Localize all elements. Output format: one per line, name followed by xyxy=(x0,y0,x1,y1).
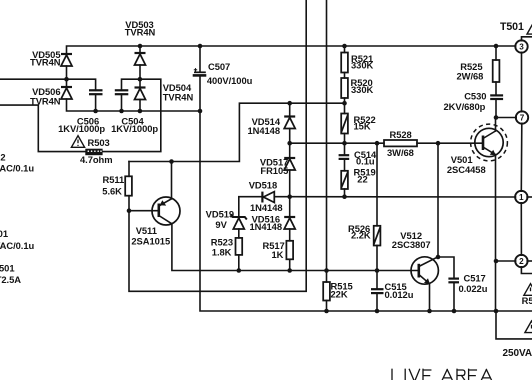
wire R515 stub top xyxy=(326,271,328,283)
junction V501 base xyxy=(436,141,441,146)
junction R515 top xyxy=(324,268,329,273)
junction R526 bottom xyxy=(375,268,380,273)
transistor V511 PNP xyxy=(152,197,180,225)
resistor R515 xyxy=(323,282,330,301)
wire R521 chain xyxy=(344,46,346,53)
svg-text:T2.5A: T2.5A xyxy=(0,274,21,285)
wire C515 stubs xyxy=(376,271,378,290)
wire emitter exit bottom right xyxy=(496,311,532,339)
wire R503 right to VD503/VD504 midpoint xyxy=(103,79,161,151)
wire node7 to node1 xyxy=(520,123,523,191)
svg-text:400V/100u: 400V/100u xyxy=(207,75,253,86)
svg-text:TVR4N: TVR4N xyxy=(163,92,194,103)
wire V512 collector vertical xyxy=(437,143,439,257)
warning triangle R503 xyxy=(71,136,84,148)
svg-text:2KV/680p: 2KV/680p xyxy=(444,101,486,112)
wire base net y=143.2 xyxy=(290,142,384,144)
wire long vertical x=326.5 xyxy=(326,0,328,271)
wire node7 left xyxy=(496,117,516,119)
capacitor C517 xyxy=(448,279,459,283)
svg-text:250VAC/0.1u: 250VAC/0.1u xyxy=(0,163,34,174)
svg-text:TVR4N: TVR4N xyxy=(30,95,61,106)
wire R511 down to bottom loop xyxy=(129,0,306,291)
resistor R526 xyxy=(374,226,381,246)
junction C507 rail xyxy=(198,109,203,114)
svg-text:0.1u: 0.1u xyxy=(356,155,375,166)
wire R517 bottom xyxy=(289,259,291,270)
svg-text:1N4148: 1N4148 xyxy=(250,202,283,213)
svg-text:C530: C530 xyxy=(464,90,486,101)
svg-text:2SC3807: 2SC3807 xyxy=(392,239,431,250)
wire VD516 stubs xyxy=(289,197,291,217)
svg-text:1K: 1K xyxy=(272,249,284,260)
wire C507 column down to ground rail xyxy=(200,76,532,311)
junction VD505/VD506 xyxy=(64,77,69,82)
warning triangle bottom right 2 (cut) xyxy=(525,321,532,333)
wire AC line 2 left via corner to R503 xyxy=(0,105,85,152)
wire node3 to node7 xyxy=(521,52,523,111)
node 1 xyxy=(515,191,527,203)
wire C514 stubs xyxy=(344,143,346,155)
capacitor C514 xyxy=(339,155,350,159)
capacitor C507 polarized xyxy=(193,68,207,75)
wire R519 bottom xyxy=(344,189,346,197)
junction C504 bottom xyxy=(119,109,124,114)
diode VD503 xyxy=(135,53,146,65)
junction R522/C514 xyxy=(342,141,347,146)
wire V512 emitter down xyxy=(429,284,431,311)
wire C504 bottom stub xyxy=(121,94,123,111)
svg-text:C501: C501 xyxy=(0,228,8,239)
wire C506 bottom stub xyxy=(95,94,97,111)
svg-text:1KV/1000p: 1KV/1000p xyxy=(58,123,105,134)
wire node1 to node2 xyxy=(520,203,522,255)
svg-text:R503: R503 xyxy=(88,137,110,148)
svg-text:2: 2 xyxy=(519,257,524,266)
diode VD517 xyxy=(284,158,295,170)
wire node1 net y=196.7 xyxy=(290,196,516,198)
diode VD514 xyxy=(284,117,295,129)
svg-text:C517: C517 xyxy=(464,272,486,283)
junction R517 bottom xyxy=(287,268,292,273)
svg-text:9V: 9V xyxy=(215,219,227,230)
junction R515 ground xyxy=(324,309,329,314)
svg-text:1N4148: 1N4148 xyxy=(249,221,282,232)
svg-text:R528: R528 xyxy=(390,129,412,140)
wire VD518 through xyxy=(274,196,289,198)
svg-text:502: 502 xyxy=(0,151,6,162)
resistor R503 dark body xyxy=(85,149,102,156)
wire node2 bottom L xyxy=(521,267,532,274)
junction VD514/VD517 xyxy=(287,141,292,146)
svg-text:1: 1 xyxy=(519,193,524,202)
wire VD519 to R523 xyxy=(238,229,240,238)
capacitor C515 xyxy=(371,289,384,293)
svg-text:TVR4N: TVR4N xyxy=(30,56,61,67)
wire V501 collector xyxy=(495,118,497,132)
diode VD504 xyxy=(135,88,146,100)
junction R526 top xyxy=(375,141,380,146)
svg-text:2.2K: 2.2K xyxy=(351,230,371,241)
wire C507 column top xyxy=(199,46,201,72)
wire VD505 anode to junction xyxy=(66,66,68,87)
junction C517 ground xyxy=(452,309,457,314)
junction R525 top rail xyxy=(494,44,499,49)
svg-text:0.012u: 0.012u xyxy=(385,289,414,300)
junction VD514 top xyxy=(287,101,292,106)
node 2 xyxy=(515,255,527,267)
svg-text:15K: 15K xyxy=(354,120,371,131)
diode VD518 horizontal pointing left xyxy=(262,192,274,203)
junction C515 ground xyxy=(375,309,380,314)
transistor V501 NPN with dashed ring xyxy=(471,124,508,161)
svg-text:330K: 330K xyxy=(351,60,373,71)
wire C517 branch xyxy=(438,257,454,279)
junction V501 emitter rail xyxy=(494,309,499,314)
svg-text:1KV/1000p: 1KV/1000p xyxy=(111,123,158,134)
diode VD505 xyxy=(61,54,72,66)
junction VD503 top rail xyxy=(138,44,143,49)
svg-text:VD518: VD518 xyxy=(249,179,277,190)
svg-text:R511: R511 xyxy=(103,174,125,185)
wire top rail xyxy=(67,46,516,54)
svg-text:V511: V511 xyxy=(136,225,157,236)
resistor R517 xyxy=(286,241,293,259)
svg-text:250VAC/0.1u: 250VAC/0.1u xyxy=(0,240,35,251)
resistor R520 xyxy=(341,78,348,98)
wire V501 emitter down xyxy=(495,155,497,312)
junction C506 bottom xyxy=(93,109,98,114)
wire R528 right to V501 base xyxy=(417,142,483,144)
svg-text:330K: 330K xyxy=(351,84,373,95)
zener VD519 xyxy=(231,215,247,230)
svg-text:1N4148: 1N4148 xyxy=(247,125,280,136)
wire V511 collector down then V512 base rail xyxy=(172,224,419,271)
junction R520/R522 xyxy=(342,101,347,106)
wire emitter net y=161.5 xyxy=(129,103,345,161)
wire node2 left xyxy=(496,260,516,262)
wire VD514 top stub xyxy=(289,103,291,116)
wire R525 C530 column xyxy=(495,46,497,60)
resistor R525 xyxy=(493,60,500,82)
wire node3 top L xyxy=(522,37,532,41)
junction VD504 anode xyxy=(138,109,143,114)
svg-text:7: 7 xyxy=(520,114,525,123)
wire R523 bottom xyxy=(238,255,240,271)
resistor R511 xyxy=(125,176,132,195)
wire VD514 bottom stub xyxy=(289,129,291,144)
wire VD506 anode to bottom cap rail xyxy=(67,99,201,111)
resistor R523 xyxy=(236,238,243,255)
junction V512 collector xyxy=(436,255,441,260)
warning triangle T501 (cut at right edge) xyxy=(527,23,532,35)
svg-text:2W/68: 2W/68 xyxy=(457,70,484,81)
svg-text:C507: C507 xyxy=(208,61,230,72)
svg-text:VD519: VD519 xyxy=(206,209,234,220)
capacitor C504 xyxy=(115,90,129,94)
svg-text:TVR4N: TVR4N xyxy=(125,27,156,38)
svg-text:5.6K: 5.6K xyxy=(102,185,122,196)
junction C507 top rail xyxy=(198,44,203,49)
junction VD518/VD517 xyxy=(287,194,292,199)
wire R515 stub bottom xyxy=(326,301,328,312)
resistor R522 xyxy=(341,114,348,134)
svg-text:2SC4458: 2SC4458 xyxy=(447,164,486,175)
wire VD503 column xyxy=(139,46,141,53)
wire C506 top stub xyxy=(67,79,96,90)
svg-text:22K: 22K xyxy=(331,288,348,299)
junction R519 bottom xyxy=(342,194,347,199)
wire R522 stubs xyxy=(344,103,346,113)
wire AC line left to VD505/VD506 junction xyxy=(0,78,67,80)
diode VD506 xyxy=(61,87,72,99)
svg-text:22: 22 xyxy=(357,173,367,184)
svg-text:R52: R52 xyxy=(522,295,532,306)
junction V512 emitter ground xyxy=(427,309,432,314)
wire node1 right xyxy=(527,196,532,198)
warning triangle bottom right 1 (cut) xyxy=(524,284,532,296)
junction V511 emitter xyxy=(169,159,174,164)
junction VD503/VD504 xyxy=(138,77,143,82)
capacitor C506 xyxy=(89,90,103,94)
wire V511 base xyxy=(129,210,159,212)
LIVE AREA text (hand-drawn thin letters) xyxy=(392,369,492,380)
svg-text:250VAC: 250VAC xyxy=(503,348,532,359)
junction node2 branch xyxy=(494,259,499,264)
wire node2 right xyxy=(527,260,532,262)
junction V511 base xyxy=(127,208,132,213)
resistor R521 xyxy=(341,53,348,73)
svg-text:3: 3 xyxy=(519,43,524,52)
svg-text:1.8K: 1.8K xyxy=(212,246,232,257)
svg-text:F501: F501 xyxy=(0,263,15,274)
wire V511 emitter up xyxy=(171,162,173,199)
wire VD517 stubs xyxy=(289,143,291,158)
node labels xyxy=(519,43,525,267)
wire VD519 top xyxy=(239,197,263,217)
resistor R519 xyxy=(341,171,348,189)
transistor V512 NPN xyxy=(411,257,438,285)
junction node7 branch xyxy=(494,115,499,120)
node 7 xyxy=(516,111,528,123)
svg-text:FR105: FR105 xyxy=(260,165,288,176)
svg-text:2SA1015: 2SA1015 xyxy=(131,236,170,247)
svg-text:T501: T501 xyxy=(500,21,524,33)
junction R523 bottom xyxy=(237,268,242,273)
wire C504 top stub xyxy=(122,79,140,90)
svg-text:4.7ohm: 4.7ohm xyxy=(80,154,113,165)
wire R511 branch xyxy=(128,162,130,177)
resistor R528 horizontal xyxy=(384,140,417,146)
capacitor C530 xyxy=(490,95,503,99)
junction R521 top rail xyxy=(342,44,347,49)
wire R526 column xyxy=(376,143,378,226)
diode VD516 xyxy=(284,217,295,229)
svg-text:0.022u: 0.022u xyxy=(459,283,488,294)
node 3 xyxy=(515,40,527,52)
svg-text:3W/68: 3W/68 xyxy=(387,147,414,158)
